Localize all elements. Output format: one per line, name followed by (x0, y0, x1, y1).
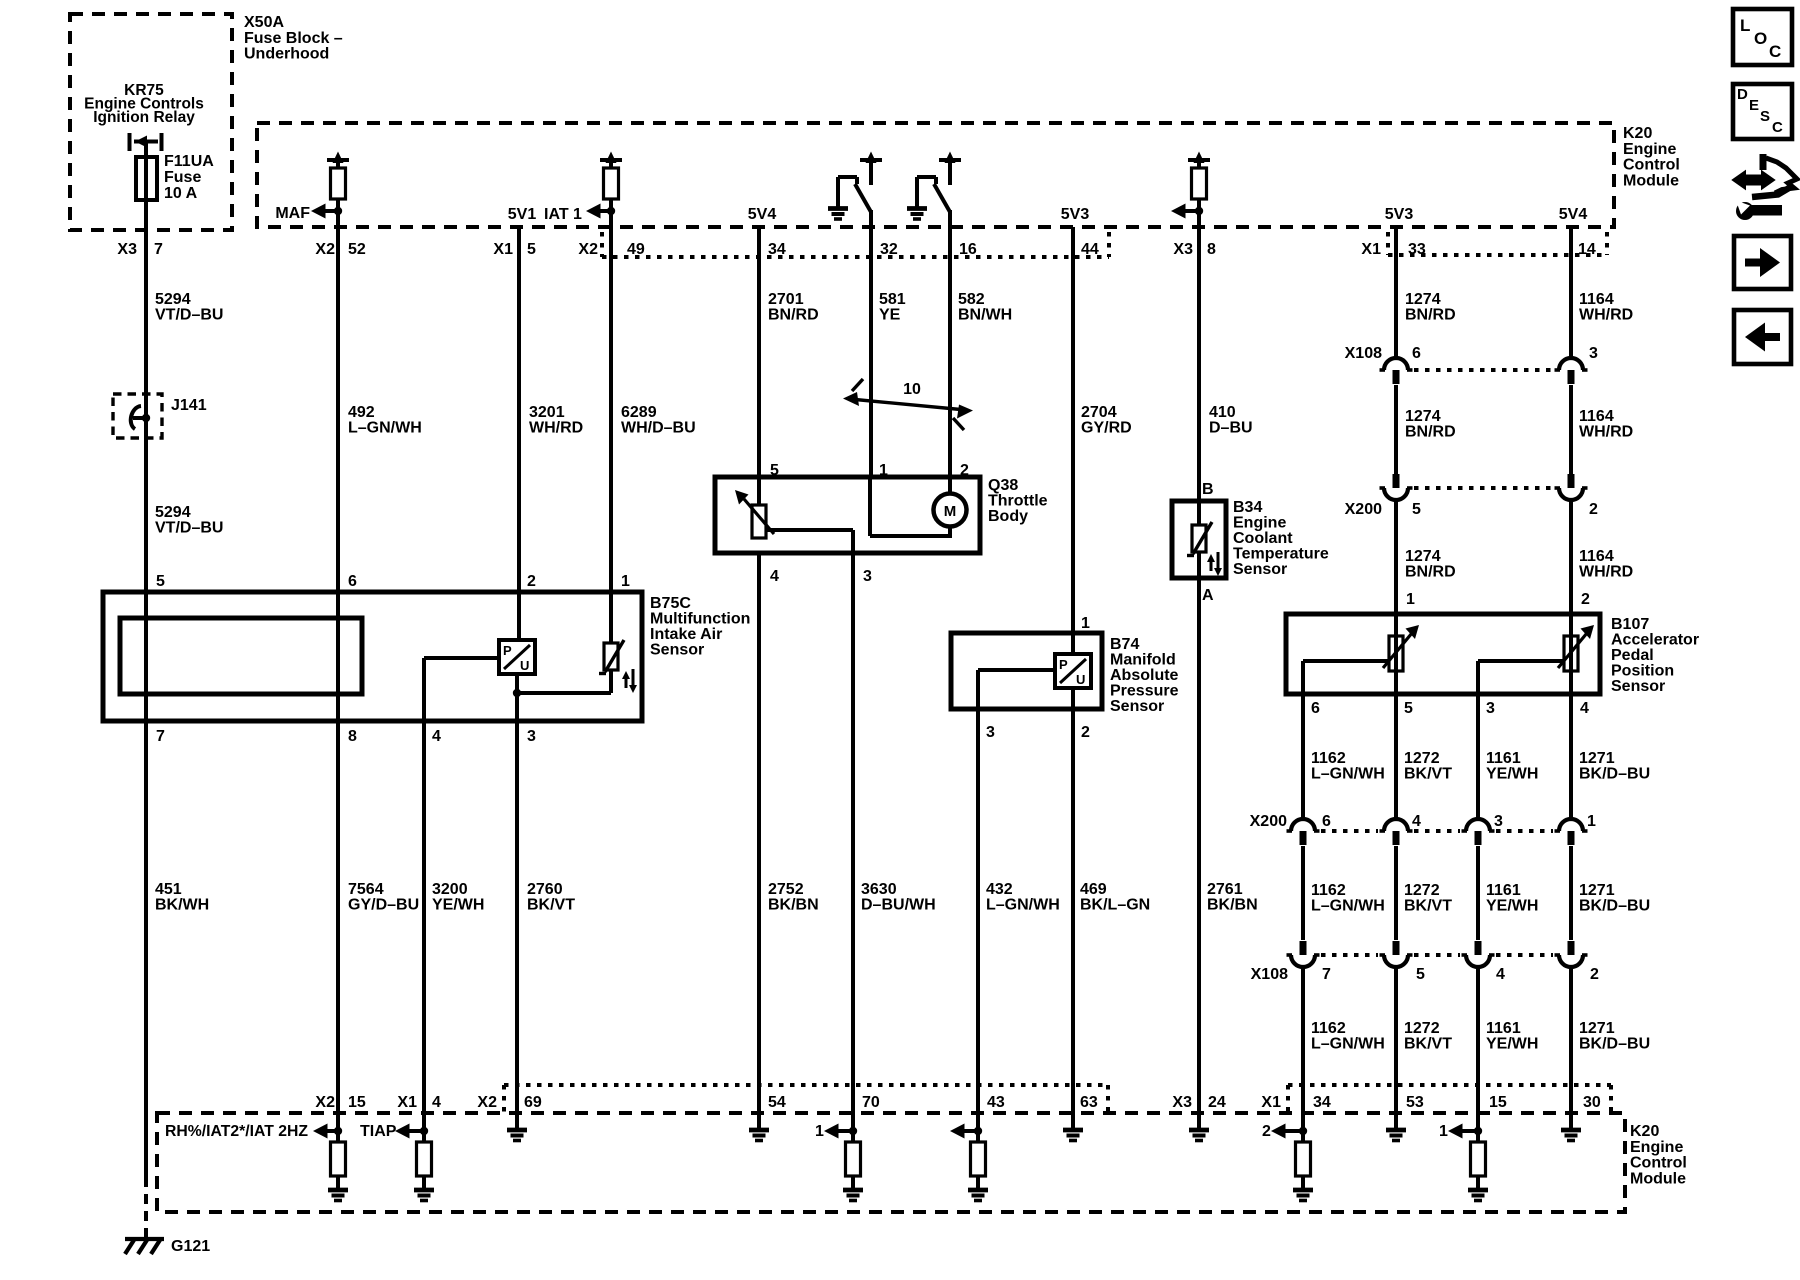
svg-text:X2: X2 (477, 1094, 497, 1111)
svg-text:X3: X3 (1172, 1094, 1192, 1111)
svg-text:52: 52 (348, 241, 366, 258)
node fixed contact 16 (939, 158, 961, 162)
svg-text:6289: 6289 (621, 404, 657, 421)
svg-text:VT/D–BU: VT/D–BU (155, 520, 223, 537)
svg-text:1274: 1274 (1405, 291, 1441, 308)
svg-text:J141: J141 (171, 397, 207, 414)
ground pin 63 (1071, 1113, 1075, 1129)
svg-text:Underhood: Underhood (244, 46, 329, 63)
svg-text:BK/BN: BK/BN (1207, 897, 1258, 914)
svg-text:Intake Air: Intake Air (650, 626, 722, 643)
ground TIAP load (414, 1188, 434, 1193)
wire 582 BN/WH (948, 210, 952, 477)
svg-text:5: 5 (156, 573, 165, 590)
svg-text:8: 8 (1207, 241, 1216, 258)
svg-text:1162: 1162 (1311, 882, 1346, 899)
svg-text:3200: 3200 (432, 881, 468, 898)
svg-text:10 A: 10 A (164, 185, 198, 202)
svg-text:6: 6 (1322, 813, 1331, 830)
svg-text:X200: X200 (1250, 813, 1287, 830)
ground throttle driver 32 (828, 206, 848, 211)
svg-text:1: 1 (621, 573, 630, 590)
svg-text:BN/RD: BN/RD (768, 307, 819, 324)
wire 432 L-GN/WH (976, 709, 980, 1143)
svg-text:1272: 1272 (1404, 1020, 1440, 1037)
wire 1161 YE/WH upper (1476, 694, 1480, 818)
svg-text:X2: X2 (315, 241, 335, 258)
ECM K20 top dashed box (257, 123, 1614, 227)
mechanical link 10 (850, 399, 966, 410)
svg-text:Module: Module (1630, 1170, 1686, 1187)
sensing element B75C (120, 618, 362, 694)
svg-text:X3: X3 (1173, 241, 1193, 258)
svg-text:6: 6 (1412, 345, 1421, 362)
svg-text:6: 6 (348, 573, 357, 590)
connector X108 pin 4 (1475, 941, 1482, 955)
wire 451 BK/WH (144, 721, 148, 1177)
svg-text:D–BU/WH: D–BU/WH (861, 897, 936, 914)
wire 1272 BK/VT lower (1394, 968, 1398, 1113)
potentiometer APP2 (1569, 614, 1573, 694)
wire relay to fuse (144, 142, 148, 161)
svg-text:5294: 5294 (155, 504, 191, 521)
svg-text:BK/D–BU: BK/D–BU (1579, 766, 1650, 783)
connector X108 pin 5 (1393, 941, 1400, 955)
wire pin2 to motor (948, 477, 952, 494)
svg-text:54: 54 (768, 1094, 786, 1111)
svg-text:BK/WH: BK/WH (155, 897, 209, 914)
svg-text:Temperature: Temperature (1233, 546, 1329, 563)
svg-text:5V3: 5V3 (1385, 206, 1414, 223)
svg-text:Coolant: Coolant (1233, 530, 1293, 547)
connector X108 pin 7 (1300, 941, 1307, 955)
wire 1162 L-GN/WH upper (1301, 694, 1305, 818)
wire 2761 BK/BN (1197, 578, 1201, 1113)
svg-text:3: 3 (1589, 345, 1598, 362)
svg-text:7: 7 (156, 728, 165, 745)
svg-text:U: U (520, 658, 529, 673)
connector X200 pin 4 (1384, 819, 1408, 831)
svg-text:K20: K20 (1623, 125, 1652, 142)
svg-text:32: 32 (880, 241, 898, 258)
svg-text:BN/RD: BN/RD (1405, 564, 1456, 581)
svg-text:YE/WH: YE/WH (1486, 766, 1538, 783)
dotted links X200 bottom (1321, 829, 1378, 833)
svg-text:X1: X1 (1261, 1094, 1281, 1111)
svg-text:1161: 1161 (1486, 882, 1521, 899)
svg-text:Q38: Q38 (988, 477, 1018, 494)
svg-text:B75C: B75C (650, 595, 691, 612)
connector X108 pin 2 (1568, 941, 1575, 955)
ground pin 53 (1394, 1113, 1398, 1129)
resistor pin15 load (1471, 1142, 1486, 1176)
svg-text:BK/L–GN: BK/L–GN (1080, 897, 1150, 914)
wire 1274 BN/RD mid (1394, 385, 1398, 474)
resistor MAF pullup (331, 168, 346, 199)
ground pin34 load (1293, 1188, 1313, 1193)
svg-text:P: P (1059, 657, 1068, 672)
wire 469 BK/L-GN (1071, 709, 1075, 1113)
resistor pin70 load (846, 1142, 861, 1176)
wire 3200 YE/WH (422, 721, 426, 1143)
wire 1164 WH/RD mid (1569, 385, 1573, 474)
svg-text:5: 5 (1412, 501, 1421, 518)
connector X200 pin 1 (1559, 819, 1583, 831)
svg-text:34: 34 (1313, 1094, 1331, 1111)
svg-text:WH/RD: WH/RD (529, 420, 583, 437)
svg-text:Ignition Relay: Ignition Relay (93, 109, 195, 126)
svg-text:Engine: Engine (1623, 141, 1676, 158)
svg-text:X108: X108 (1345, 345, 1382, 362)
MAP sensor B74 box (951, 633, 1102, 709)
ground pin 69 (515, 1113, 519, 1129)
svg-text:Engine: Engine (1630, 1139, 1683, 1156)
connector group dotted line pins 49-44 (600, 232, 604, 257)
connector X200 pin 5 (1393, 474, 1400, 488)
fuse block X50A dashed box (70, 14, 232, 230)
svg-text:O: O (1754, 29, 1767, 48)
svg-text:44: 44 (1081, 241, 1099, 258)
connector X108 pin 6 (1384, 358, 1408, 370)
node ECT signal arrow (1179, 209, 1199, 213)
thermistor ECT (1197, 501, 1201, 525)
ground pin 30 (1569, 1113, 1573, 1129)
svg-text:1: 1 (815, 1123, 824, 1140)
svg-text:YE/WH: YE/WH (432, 897, 484, 914)
wire pin1 to PU (1071, 633, 1075, 654)
wire PU to junction (515, 674, 519, 693)
svg-text:YE/WH: YE/WH (1486, 898, 1538, 915)
connector group dotted line pins 69-63 (502, 1085, 506, 1113)
wire 492 L-GN/WH (336, 211, 340, 592)
wire wiper to pin 3 (766, 528, 853, 532)
svg-text:Engine: Engine (1233, 515, 1286, 532)
svg-text:K20: K20 (1630, 1123, 1659, 1140)
svg-text:Throttle: Throttle (988, 493, 1048, 510)
svg-text:X50A: X50A (244, 14, 284, 31)
node IAT1 driver in ECM (600, 158, 622, 162)
svg-text:1164: 1164 (1579, 548, 1614, 565)
svg-text:M: M (944, 503, 957, 520)
svg-text:3: 3 (1494, 813, 1503, 830)
svg-text:6: 6 (1311, 700, 1320, 717)
icon forward arrow button (1734, 236, 1791, 289)
potentiometer throttle position (752, 505, 766, 538)
svg-text:L–GN/WH: L–GN/WH (986, 897, 1060, 914)
svg-text:WH/RD: WH/RD (1579, 564, 1633, 581)
resistor TIAP load (417, 1142, 432, 1176)
svg-text:14: 14 (1578, 241, 1596, 258)
svg-text:469: 469 (1080, 881, 1107, 898)
intake air sensor B75C box (103, 592, 642, 721)
svg-text:Sensor: Sensor (650, 642, 704, 659)
svg-text:B74: B74 (1110, 636, 1139, 653)
svg-text:4: 4 (432, 728, 441, 745)
svg-text:Control: Control (1623, 157, 1680, 174)
wire pin4 path (424, 656, 499, 660)
wire 410 D-BU (1197, 211, 1201, 501)
svg-text:E: E (1749, 97, 1759, 114)
dotted links X108 bottom (1321, 953, 1378, 957)
resistor IAT1 pullup (604, 168, 619, 199)
ground pin43 load (968, 1188, 988, 1193)
svg-text:BN/WH: BN/WH (958, 307, 1012, 324)
svg-text:2: 2 (960, 462, 969, 479)
svg-text:4: 4 (1580, 700, 1589, 717)
svg-text:2: 2 (1590, 966, 1599, 983)
svg-text:69: 69 (524, 1094, 542, 1111)
svg-text:BK/VT: BK/VT (1404, 898, 1452, 915)
svg-text:63: 63 (1080, 1094, 1098, 1111)
svg-text:16: 16 (959, 241, 977, 258)
icon LOC button (1733, 9, 1792, 65)
connector group dotted line pins 34-30 (1286, 1085, 1290, 1113)
wire 6289 WH/D-BU (609, 211, 613, 592)
svg-text:5V4: 5V4 (1559, 206, 1588, 223)
svg-text:Control: Control (1630, 1155, 1687, 1172)
svg-text:Module: Module (1623, 172, 1679, 189)
svg-text:C: C (1769, 42, 1781, 61)
svg-text:451: 451 (155, 881, 182, 898)
svg-text:1272: 1272 (1404, 750, 1440, 767)
svg-text:TIAP: TIAP (360, 1123, 397, 1140)
switch throttle driver low in ECM (836, 177, 840, 207)
svg-text:BK/VT: BK/VT (1404, 1036, 1452, 1053)
motor M throttle (934, 494, 967, 527)
throttle body Q38 box (715, 477, 980, 553)
switch throttle driver high in ECM (915, 177, 919, 207)
svg-text:2761: 2761 (1207, 881, 1243, 898)
svg-text:Pressure: Pressure (1110, 683, 1179, 700)
svg-text:BK/D–BU: BK/D–BU (1579, 1036, 1650, 1053)
svg-text:IAT 1: IAT 1 (544, 206, 582, 223)
svg-text:8: 8 (348, 728, 357, 745)
wire 1164 WH/RD lower (1569, 501, 1573, 614)
svg-text:B34: B34 (1233, 499, 1262, 516)
svg-text:GY/RD: GY/RD (1081, 420, 1132, 437)
svg-text:Manifold: Manifold (1110, 652, 1176, 669)
wire 1274 BN/RD lower (1394, 501, 1398, 614)
ground pin 54 (757, 1113, 761, 1129)
icon DESC button (1733, 84, 1792, 139)
wiper APP1 to pin6 (1303, 659, 1389, 663)
svg-text:P: P (503, 643, 512, 658)
svg-text:BK/BN: BK/BN (768, 897, 819, 914)
svg-text:WH/RD: WH/RD (1579, 307, 1633, 324)
node arrow pin 43 (958, 1129, 978, 1133)
ECM K20 bottom dashed box (157, 1113, 1625, 1212)
icon wrench with arrows (1733, 172, 1774, 189)
svg-text:3: 3 (986, 724, 995, 741)
wire to G121 dashed (144, 1177, 148, 1238)
splice J141 (113, 394, 162, 438)
svg-text:432: 432 (986, 881, 1013, 898)
svg-text:24: 24 (1208, 1094, 1226, 1111)
svg-text:L–GN/WH: L–GN/WH (348, 420, 422, 437)
ground RH load (328, 1188, 348, 1193)
connector X108 pin 3 (1559, 358, 1583, 370)
svg-text:2: 2 (1081, 724, 1090, 741)
wire 1161 YE/WH mid (1476, 846, 1480, 940)
pressure sensor P/U B74 (1055, 654, 1091, 688)
svg-text:1271: 1271 (1579, 750, 1615, 767)
wire 1271 BK/D-BU upper (1569, 694, 1573, 818)
svg-text:1162: 1162 (1311, 1020, 1346, 1037)
wire fuse to X3-7 (144, 200, 148, 592)
svg-text:VT/D–BU: VT/D–BU (155, 307, 223, 324)
svg-text:53: 53 (1406, 1094, 1424, 1111)
resistor pin34 load (1296, 1142, 1311, 1176)
arrows temp variation (625, 675, 628, 688)
svg-text:Sensor: Sensor (1233, 561, 1287, 578)
svg-text:49: 49 (627, 241, 645, 258)
resistor pin43 load (971, 1142, 986, 1176)
svg-text:410: 410 (1209, 404, 1236, 421)
svg-text:X2: X2 (578, 241, 598, 258)
svg-text:5: 5 (527, 241, 536, 258)
wire 2760 BK/VT (515, 721, 519, 1113)
svg-text:WH/RD: WH/RD (1579, 424, 1633, 441)
wire pin6 through element (336, 592, 340, 721)
svg-text:1271: 1271 (1579, 1020, 1615, 1037)
svg-text:WH/D–BU: WH/D–BU (621, 420, 696, 437)
accelerator pedal sensor B107 box (1286, 614, 1600, 694)
svg-text:X1: X1 (397, 1094, 417, 1111)
svg-text:4: 4 (1496, 966, 1505, 983)
ground pin70 load (843, 1188, 863, 1193)
svg-text:Multifunction: Multifunction (650, 611, 750, 628)
svg-text:C: C (1772, 119, 1783, 136)
svg-text:2760: 2760 (527, 881, 563, 898)
svg-text:X1: X1 (493, 241, 513, 258)
svg-text:5294: 5294 (155, 291, 191, 308)
wire 1272 BK/VT upper (1394, 694, 1398, 818)
svg-text:34: 34 (768, 241, 786, 258)
svg-text:BK/VT: BK/VT (1404, 766, 1452, 783)
svg-text:1: 1 (1081, 615, 1090, 632)
svg-text:1162: 1162 (1311, 750, 1346, 767)
svg-text:Accelerator: Accelerator (1611, 632, 1699, 649)
svg-text:2704: 2704 (1081, 404, 1117, 421)
svg-text:2752: 2752 (768, 881, 804, 898)
svg-text:3: 3 (863, 568, 872, 585)
svg-text:1272: 1272 (1404, 882, 1440, 899)
svg-text:Fuse: Fuse (164, 169, 201, 186)
svg-text:7564: 7564 (348, 881, 384, 898)
svg-text:1274: 1274 (1405, 548, 1441, 565)
svg-text:5V4: 5V4 (748, 206, 777, 223)
svg-text:B: B (1202, 481, 1214, 498)
svg-text:Sensor: Sensor (1110, 698, 1164, 715)
svg-text:X200: X200 (1345, 501, 1382, 518)
wire 1271 BK/D-BU lower (1569, 968, 1573, 1113)
wire 581 YE (869, 210, 873, 477)
svg-text:X3: X3 (117, 241, 137, 258)
svg-text:Absolute: Absolute (1110, 667, 1179, 684)
svg-text:5: 5 (1416, 966, 1425, 983)
wire PU to pin2 (1071, 688, 1075, 709)
svg-text:X1: X1 (1361, 241, 1381, 258)
svg-text:X108: X108 (1251, 966, 1288, 983)
wire wiper to pin3 (978, 668, 1056, 672)
svg-text:Body: Body (988, 508, 1028, 525)
svg-text:10: 10 (903, 381, 921, 398)
svg-text:BK/D–BU: BK/D–BU (1579, 898, 1650, 915)
wire thermistor return (517, 691, 611, 695)
svg-text:A: A (1202, 587, 1214, 604)
svg-text:Sensor: Sensor (1611, 678, 1665, 695)
svg-text:15: 15 (1489, 1094, 1507, 1111)
svg-text:1161: 1161 (1486, 750, 1521, 767)
ground G121 chassis (125, 1237, 164, 1241)
wire 1162 L-GN/WH mid (1301, 846, 1305, 940)
svg-text:5: 5 (770, 462, 779, 479)
svg-text:30: 30 (1583, 1094, 1601, 1111)
connector group dotted line pins 33-14 (1386, 232, 1390, 255)
svg-text:Position: Position (1611, 663, 1674, 680)
svg-text:4: 4 (770, 568, 779, 585)
svg-text:U: U (1076, 672, 1085, 687)
wire 1272 BK/VT mid (1394, 846, 1398, 940)
svg-text:1: 1 (1587, 813, 1596, 830)
connector X200 pin 3 (1466, 819, 1490, 831)
svg-text:Fuse Block –: Fuse Block – (244, 30, 343, 47)
svg-text:582: 582 (958, 291, 985, 308)
wire 3630 D-BU/WH (851, 553, 855, 1143)
wiper APP2 to pin3 (1478, 659, 1564, 663)
svg-text:7: 7 (1322, 966, 1331, 983)
svg-text:1164: 1164 (1579, 408, 1614, 425)
svg-text:2: 2 (1262, 1123, 1271, 1140)
svg-text:1: 1 (1439, 1123, 1448, 1140)
svg-text:YE: YE (879, 307, 901, 324)
svg-text:3201: 3201 (529, 404, 565, 421)
svg-text:Pedal: Pedal (1611, 647, 1654, 664)
svg-text:1: 1 (1406, 591, 1415, 608)
fuse F11UA (136, 157, 157, 200)
svg-text:2701: 2701 (768, 291, 804, 308)
svg-text:L–GN/WH: L–GN/WH (1311, 1036, 1385, 1053)
pressure sensor P/U B75C (499, 640, 535, 674)
thermistor IAT1 B75C (609, 592, 613, 643)
wire pin1 to motor (868, 477, 872, 536)
wire 1271 BK/D-BU mid (1569, 846, 1573, 940)
svg-text:S: S (1760, 108, 1770, 125)
wire 2752 BK/BN (757, 553, 761, 1113)
svg-text:X2: X2 (315, 1094, 335, 1111)
resistor RH load (331, 1142, 346, 1176)
svg-text:MAF: MAF (275, 205, 310, 222)
svg-text:L–GN/WH: L–GN/WH (1311, 766, 1385, 783)
svg-text:RH%/IAT2*/IAT 2HZ: RH%/IAT2*/IAT 2HZ (165, 1123, 308, 1140)
svg-text:BK/VT: BK/VT (527, 897, 575, 914)
icon back arrow button (1734, 310, 1791, 364)
svg-text:F11UA: F11UA (164, 153, 214, 170)
svg-text:33: 33 (1408, 241, 1426, 258)
svg-text:1164: 1164 (1579, 291, 1614, 308)
svg-text:2: 2 (527, 573, 536, 590)
svg-text:1271: 1271 (1579, 882, 1615, 899)
svg-text:G121: G121 (171, 1238, 210, 1255)
resistor ECT pullup (1192, 168, 1207, 199)
svg-text:492: 492 (348, 404, 375, 421)
coolant temp sensor B34 box (1172, 501, 1226, 578)
ground pin 24 (1197, 1113, 1201, 1129)
svg-text:L–GN/WH: L–GN/WH (1311, 898, 1385, 915)
svg-text:5V3: 5V3 (1061, 206, 1090, 223)
svg-text:1: 1 (879, 462, 888, 479)
svg-text:D: D (1737, 86, 1748, 103)
